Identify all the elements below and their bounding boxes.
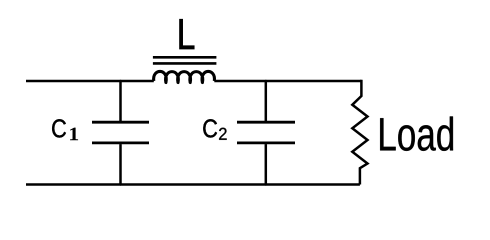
capacitor C2 bottom plate xyxy=(237,141,295,144)
wire bottom segment load to C2 node xyxy=(266,183,360,185)
capacitor C1 top plate xyxy=(92,121,149,124)
inductor L core line 2 xyxy=(153,62,217,65)
wire top segment inductor right lead to C2 node xyxy=(214,80,265,82)
label C1 xyxy=(52,119,66,137)
junction node: C1 bottom tap xyxy=(119,183,121,185)
capacitor C2 bottom lead xyxy=(265,144,268,184)
label L (inductor reference) xyxy=(180,19,195,49)
capacitor C1 bottom lead xyxy=(119,144,122,184)
label Load xyxy=(380,116,453,150)
capacitor C2 top lead xyxy=(265,81,268,121)
junction node: C2 top tap xyxy=(265,80,267,82)
junction node: C1 top tap xyxy=(119,80,121,82)
label C2 xyxy=(203,119,217,137)
wire top segment C1 node to inductor left lead xyxy=(121,80,154,82)
wire bottom-left segment (C1 node to input) xyxy=(26,183,121,185)
wire top segment C2 node to load xyxy=(266,80,362,82)
capacitor C1 top lead xyxy=(119,81,122,121)
capacitor C2 top plate xyxy=(237,121,295,124)
wire top-left segment (input to C1 node) xyxy=(26,80,121,82)
junction node: C2 bottom tap xyxy=(265,183,267,185)
capacitor C1 bottom plate xyxy=(92,141,149,144)
wire bottom segment C2 node to C1 node xyxy=(121,183,266,185)
resistor Load (zigzag with leads) xyxy=(352,80,367,185)
inductor L core line 1 xyxy=(153,56,217,59)
inductor L coil winding xyxy=(154,71,215,82)
